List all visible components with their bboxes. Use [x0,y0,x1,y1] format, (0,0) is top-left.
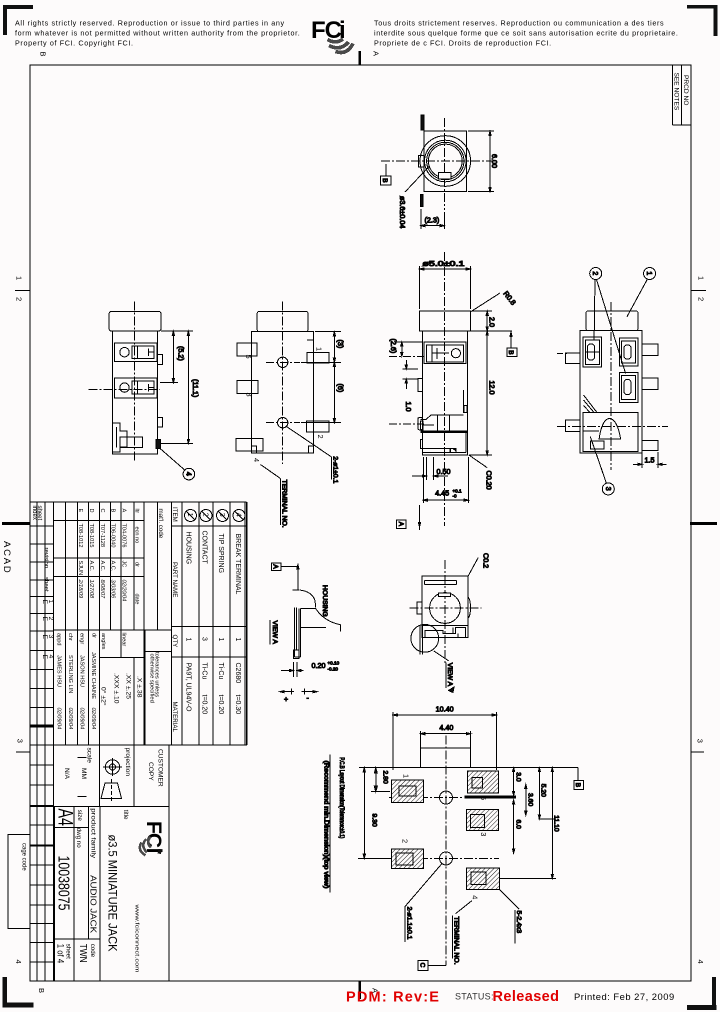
svg-text:B: B [110,509,116,513]
right tabs [642,344,658,356]
cap [109,311,161,331]
balloon 3 [590,437,606,484]
terminal number labels [244,347,325,462]
svg-text:4.45: 4.45 [435,489,449,498]
lower-left terminal steps [113,423,128,452]
svg-text:3/03/06: 3/03/06 [110,580,116,600]
lower-left circle [411,624,439,652]
TITLEBLOCK [8,502,247,981]
tip spring bar [293,607,295,657]
section A flag bottom [419,505,421,530]
svg-text:TWN: TWN [77,944,88,963]
leader 4 / TERMINAL NO. [261,465,281,479]
svg-text:C2680: C2680 [234,663,241,684]
zone ticks and labels [358,51,361,999]
dim 4.45 [422,457,424,503]
left tab [417,602,422,614]
svg-text:D: D [88,509,94,513]
svg-text:1.0: 1.0 [404,402,413,412]
svg-text:0.20: 0.20 [312,661,326,670]
pads [391,771,499,889]
svg-text:02/09/04: 02/09/04 [56,708,62,730]
svg-text:PART NAME: PART NAME [171,562,178,597]
svg-text:.XX ±.25: .XX ±.25 [125,673,132,699]
dim 0.50 [426,457,428,480]
big circle [430,593,461,624]
svg-text:3: 3 [201,637,208,641]
svg-text:chr: chr [67,633,73,641]
leader R0.8 [470,293,500,312]
svg-text:dr: dr [91,633,97,638]
svg-text:5: 5 [244,355,253,359]
svg-text:PA9T, UL94V-O: PA9T, UL94V-O [185,663,192,712]
svg-text:+0.10: +0.10 [328,661,340,666]
svg-text:1: 1 [697,276,706,280]
dim 2.0 [472,310,492,312]
svg-text:A: A [397,522,404,527]
svg-text:C0.2: C0.2 [481,553,490,568]
svg-text:E: E [77,509,83,513]
dim 12.0 [470,454,493,456]
svg-text:t=0.20: t=0.20 [217,695,224,715]
svg-text:A.C.: A.C. [88,561,94,572]
svg-text:A.C.: A.C. [110,561,116,572]
svg-text:CONTACT: CONTACT [201,531,208,565]
body [422,576,468,637]
dim 6.00 [468,130,494,132]
svg-text:2-ø1.1±0.1: 2-ø1.1±0.1 [406,907,413,940]
svg-text:2-ø1±0.1: 2-ø1±0.1 [332,456,339,483]
left tabs [237,343,257,356]
PROD NO / SEE NOTES box [672,65,691,125]
svg-text:3.60: 3.60 [527,793,534,806]
svg-text:(11.1): (11.1) [191,379,200,397]
svg-text:code: code [89,944,96,958]
svg-text:MM: MM [80,768,87,779]
dim (2.3) [420,209,422,229]
spring diagonals [584,395,598,413]
svg-text:SEE NOTES: SEE NOTES [672,73,679,111]
centerlines [443,118,445,210]
svg-text:dwg no: dwg no [75,828,82,849]
svg-text:E: E [41,635,48,640]
leader 2-dia1.1 [405,864,442,907]
svg-text:ltr: ltr [134,509,140,514]
top bar [424,579,456,581]
svg-text:CUSTOMER: CUSTOMER [157,749,164,787]
svg-text:VIEW A: VIEW A [271,621,278,645]
svg-text:P.C.B Layout Dimension(Tolera: P.C.B Layout Dimension(Tolerance:±0.1) [338,757,344,838]
svg-text:C: C [418,963,425,968]
cap [420,311,471,331]
bottom interior [423,625,468,627]
body [580,331,642,453]
svg-text:(Recommend min.Dimension)(top: (Recommend min.Dimension)(top view) [323,761,329,889]
svg-text:B: B [381,178,388,182]
dim (5.2) [161,330,178,332]
FCI logo top center [311,17,346,44]
svg-text:dr: dr [134,562,140,567]
right tabs [307,353,329,363]
right windows [619,338,638,366]
left window [583,337,602,367]
svg-text:3: 3 [16,739,25,743]
upper window/contact [424,342,466,363]
svg-text:A: A [271,564,278,569]
VIEW A label [269,620,271,645]
svg-text:1: 1 [186,513,193,517]
right bumps [158,354,163,364]
dim (6) [301,422,341,424]
svg-text:+: + [284,697,288,704]
svg-text:revision: revision [43,548,49,569]
right dims [499,767,557,769]
body square [424,131,466,192]
svg-text:interdite sous quelque forme q: interdite sous quelque forme que ce soit… [374,29,679,38]
svg-text:TERMINAL NO.: TERMINAL NO. [453,917,460,965]
svg-text:1: 1 [402,774,411,778]
svg-text:MATERIAL: MATERIAL [171,702,178,733]
svg-text:5: 5 [479,796,488,800]
svg-text:6.0: 6.0 [514,820,521,830]
svg-text:.XXX ±.10: .XXX ±.10 [113,673,120,704]
svg-text:ø3.6±0.04: ø3.6±0.04 [398,196,407,228]
svg-text:ø3.5 MINIATURE JACK: ø3.5 MINIATURE JACK [106,835,118,952]
section B flag right [577,768,579,781]
svg-text:11.10: 11.10 [553,815,560,832]
holes [278,357,288,367]
corner notches [252,446,257,453]
body [252,332,314,453]
svg-text:A4: A4 [54,809,77,827]
svg-text:PDM: Rev:E: PDM: Rev:E [346,990,440,1006]
svg-text:1.5: 1.5 [645,455,655,464]
leader 2-dia1 [287,427,332,457]
svg-text:ø5.0±0.1: ø5.0±0.1 [422,259,464,268]
svg-text:Ti-Cu: Ti-Cu [201,663,208,680]
svg-text:scale: scale [86,748,93,764]
svg-text:B: B [39,52,48,57]
svg-text:www.fciconnect.com: www.fciconnect.com [134,903,140,973]
housing profile [293,589,300,591]
svg-text:t=0.20: t=0.20 [201,695,208,715]
dim (3) [315,331,341,333]
svg-text:1: 1 [217,638,224,642]
svg-text:4.40: 4.40 [439,723,453,732]
svg-text:cage code: cage code [21,843,27,871]
projection symbols [101,758,122,803]
svg-text:T07-1128: T07-1128 [99,524,105,548]
svg-text:E: E [41,617,48,622]
svg-text:QTY: QTY [171,635,178,648]
svg-text:2: 2 [591,271,598,275]
svg-text:E: E [41,655,48,660]
parts list table [30,502,247,745]
svg-text:engr: engr [79,633,85,644]
terminal labels [401,774,489,899]
svg-text:3: 3 [479,832,488,836]
svg-text:1: 1 [15,276,24,280]
svg-text:4: 4 [14,960,23,964]
svg-text:10038075: 10038075 [55,856,72,911]
svg-text:(3): (3) [336,340,345,349]
svg-text:C: C [99,509,105,513]
svg-text:4: 4 [471,895,480,899]
svg-text:3: 3 [604,487,611,491]
svg-text:-0.20: -0.20 [328,667,339,672]
svg-text:1: 1 [234,638,241,642]
dim 2.80 [375,768,377,792]
dim 1.0 left [403,368,419,370]
left tab [418,155,424,167]
svg-text:SJUN: SJUN [77,561,83,576]
svg-text:JC: JC [121,561,127,568]
cage code box [8,834,30,928]
svg-text:A: A [121,509,127,513]
svg-text:T08-1012: T08-1012 [77,524,83,548]
balloon 4 [160,449,184,470]
bottom-left terminal bar [421,194,423,206]
svg-text:N/A: N/A [63,768,70,780]
leader C0.20 [469,455,487,468]
svg-text:5.20: 5.20 [540,784,547,797]
svg-text:6.00: 6.00 [490,154,499,168]
window 1 [115,343,158,362]
svg-text:B: B [37,988,46,993]
thick bar [465,796,517,799]
notch rect in hole [439,173,451,179]
section B flag [510,331,512,348]
svg-text:T06-0040: T06-0040 [110,524,116,548]
item number balloons [185,510,246,522]
svg-text:2: 2 [15,297,24,301]
cap [586,311,638,331]
svg-text:4: 4 [185,472,192,476]
svg-text:2: 2 [697,297,706,301]
svg-text:BREAK TERMINAL: BREAK TERMINAL [234,534,241,595]
svg-text:(2.3): (2.3) [425,216,440,225]
svg-text:(6): (6) [336,384,345,393]
dim 9.30 [363,768,365,859]
left tabs [566,353,581,364]
svg-text:5-2.4x3: 5-2.4x3 [515,911,522,934]
svg-text:2: 2 [316,435,325,439]
svg-text:mat'l. code: mat'l. code [157,509,164,539]
section B marker [385,164,387,176]
svg-text:STATUS:: STATUS: [455,992,494,1002]
svg-text:2/18/09: 2/18/09 [77,579,83,599]
dim (2.6) left [401,342,403,356]
cap [257,311,308,331]
svg-text:TERMINAL NO.: TERMINAL NO. [281,480,288,528]
svg-text:Tous droits strictement reserv: Tous droits strictement reserves. Reprod… [374,19,664,28]
svg-text:product family: product family [90,808,97,859]
revision table [54,502,172,745]
body [422,331,467,455]
lower area [418,418,423,430]
svg-text:02/09/04: 02/09/04 [79,708,85,730]
VIEWS [88,115,668,971]
leader C0.2 [468,558,478,577]
svg-text:02/09/04: 02/09/04 [90,708,96,730]
header copyright FR [374,19,679,48]
leader dia 3.6 [405,166,430,192]
svg-text:4: 4 [235,513,242,517]
svg-text:ACAD: ACAD [1,541,12,575]
right bulge [468,597,470,618]
FCI logo in title block (rotated) [142,821,165,854]
svg-text:JASMINE CHAINE: JASMINE CHAINE [90,652,96,699]
spring bar [419,625,421,654]
svg-text:8/08/07: 8/08/07 [99,580,105,600]
svg-text:AUDIO JACK: AUDIO JACK [89,875,99,933]
svg-text:4: 4 [696,960,705,964]
svg-text:1/27/08: 1/27/08 [88,580,94,600]
svg-text:.X ±.38: .X ±.38 [136,676,143,698]
svg-text:10.40: 10.40 [436,705,454,714]
dim (11.1) [161,330,193,332]
svg-text:sheet: sheet [43,577,49,592]
svg-text:A.C.: A.C. [99,561,105,572]
svg-text:T04-0076: T04-0076 [121,524,127,548]
svg-text:Ti-Cu: Ti-Cu [217,663,224,680]
svg-text:VIEW A: VIEW A [446,663,453,687]
signature rows [56,633,97,729]
svg-text:Property of FCI. Copyright FC: Property of FCI. Copyright FCI. [15,39,134,48]
customer copy / scale / projection row [30,745,169,981]
svg-text:date: date [134,594,140,605]
tolerance block [100,633,127,650]
svg-text:title: title [122,810,129,820]
dim 1.5 [641,453,643,468]
svg-text:4: 4 [252,458,261,462]
svg-text:index: index [31,506,37,520]
svg-text:3: 3 [218,513,225,517]
svg-text:TIP SPRING: TIP SPRING [217,534,224,574]
svg-text:JAMES HSU: JAMES HSU [56,655,62,687]
bottom status line [346,989,675,1006]
section C flag bottom [418,961,428,971]
svg-text:Printed: Feb 27, 2009: Printed: Feb 27, 2009 [574,991,675,1002]
svg-text:9.30: 9.30 [371,814,378,827]
svg-text:All rights strictly reserved.: All rights strictly reserved. Reproducti… [15,19,285,28]
svg-text:0.50: 0.50 [437,467,451,476]
svg-text:2: 2 [202,513,209,517]
svg-text:1 of 4: 1 of 4 [56,944,66,964]
svg-text:3.0: 3.0 [514,772,521,782]
part outline [420,731,422,768]
svg-text:2: 2 [401,839,410,843]
A flag with leader [271,563,281,571]
svg-text:COPY: COPY [147,762,154,781]
svg-text:JASON HSU: JASON HSU [79,655,85,687]
circles [420,136,471,187]
balloons [590,268,602,280]
svg-text:STERLING LIN: STERLING LIN [67,655,73,693]
svg-text:Propriete de c FCI. Droits de: Propriete de c FCI. Droits de reproducti… [374,39,552,48]
PCB caption [329,754,331,892]
svg-text:appd: appd [56,633,62,645]
svg-text:2.80: 2.80 [382,771,389,784]
svg-text:A: A [372,51,381,56]
svg-text:1: 1 [645,271,652,275]
svg-text:t=0.30: t=0.30 [234,695,241,715]
svg-text:HOUSING: HOUSING [321,585,328,617]
window 2 [115,378,158,398]
right inner lines [462,390,464,413]
sheet index table [30,502,247,981]
svg-text:(5.2): (5.2) [177,346,186,361]
svg-text:projection: projection [124,748,131,777]
svg-text:form whatever is not permitted: form whatever is not permitted without w… [15,29,300,38]
svg-text:1: 1 [185,638,192,642]
svg-text:PRCD NO: PRCD NO [682,75,689,105]
VIEW A label [434,651,449,661]
svg-text:linear: linear [121,633,127,647]
svg-text:B: B [507,350,514,354]
leader 5-2.4x3 [499,889,519,909]
svg-text:ecn no: ecn no [134,527,140,544]
body [113,331,158,454]
svg-text:(2.6): (2.6) [389,339,398,354]
bottom title section [55,807,101,982]
svg-text:otherwise specified: otherwise specified [149,654,155,703]
left small step [418,379,423,392]
svg-text:ITEM: ITEM [171,507,178,522]
svg-text:3: 3 [696,739,705,743]
leader 4 TERMINAL NO. [456,901,473,914]
svg-text:Released: Released [493,989,560,1005]
svg-text:12.0: 12.0 [488,381,497,395]
holes [440,791,453,804]
svg-text:C0.20: C0.20 [484,471,493,490]
svg-text:-0: -0 [453,494,458,499]
svg-text:HOUSING: HOUSING [185,532,192,565]
svg-text:3: 3 [245,393,254,397]
top-left terminal bar [421,115,424,130]
svg-text:E: E [41,600,48,605]
svg-text:2.0: 2.0 [488,317,497,327]
header copyright EN [15,19,300,48]
svg-text:02/20/04: 02/20/04 [121,580,127,602]
svg-text:T08-1015: T08-1015 [88,524,94,548]
svg-text:02/09/04: 02/09/04 [67,708,73,730]
svg-text:1: 1 [315,347,324,351]
plus/minus datum marks [280,691,294,693]
svg-text:FC: FC [142,821,165,848]
svg-text:B: B [574,783,581,787]
svg-text:0° ±2°: 0° ±2° [100,687,108,706]
bottom box and dome [583,413,638,452]
svg-text:angles: angles [100,633,106,650]
